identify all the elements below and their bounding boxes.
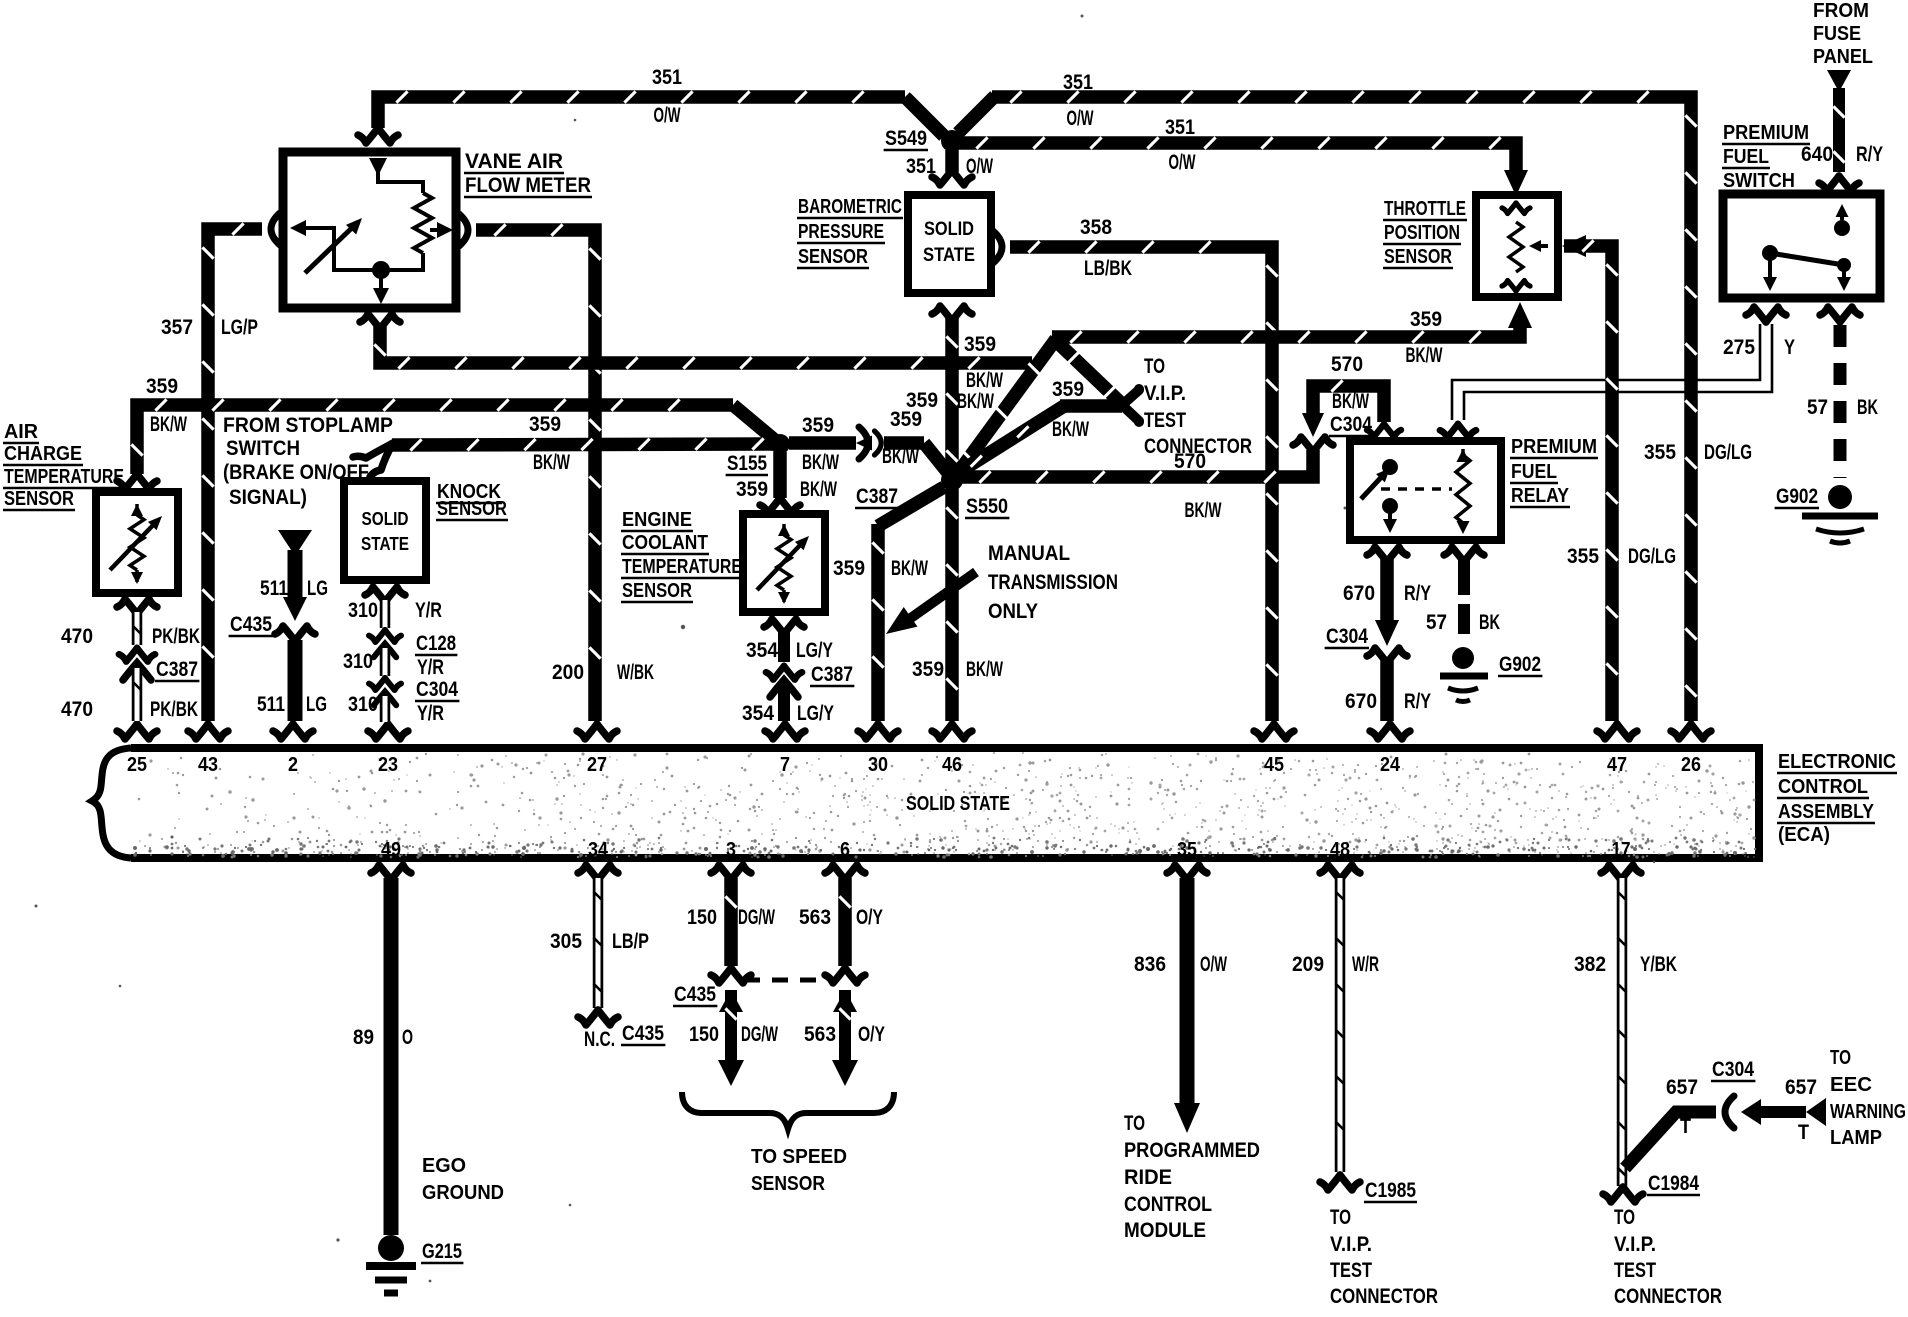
svg-text:30: 30: [868, 754, 888, 776]
svg-text:S550: S550: [966, 495, 1008, 518]
svg-text:25: 25: [127, 754, 147, 776]
ECA pin 24 (top): [1370, 724, 1410, 776]
svg-text:ENGINE: ENGINE: [622, 509, 692, 531]
svg-text:563: 563: [799, 906, 831, 929]
svg-text:359: 359: [146, 375, 178, 398]
svg-text:C387: C387: [856, 485, 898, 508]
label 305: [550, 930, 582, 953]
label Y/R c: [417, 702, 444, 725]
label 640: [1801, 143, 1833, 166]
svg-text:LG: LG: [306, 693, 327, 716]
svg-text:TO SPEED: TO SPEED: [751, 1146, 847, 1168]
svg-text:C435: C435: [230, 613, 272, 636]
ECA pin 6 (bottom): [825, 839, 865, 880]
ECA pin 46 (top): [932, 724, 972, 776]
wire 359 BK/W S550 diagonal to VIP test connector: [956, 341, 1144, 474]
svg-text:CONNECTOR: CONNECTOR: [1330, 1285, 1438, 1308]
wire 150 DG/W to speed sensor: [718, 990, 744, 1086]
label C304 657: [1711, 1058, 1755, 1081]
ECA pin 2 (top): [273, 724, 313, 776]
wire 359 BK/W barometric sensor to S550: [932, 306, 972, 475]
label 351 right top: [1063, 71, 1093, 94]
svg-text:O/W: O/W: [1067, 107, 1094, 130]
svg-text:FUSE: FUSE: [1813, 23, 1861, 45]
engine coolant temperature sensor box: [743, 514, 825, 612]
label BK right: [1857, 396, 1878, 419]
ECA name label: [1777, 751, 1897, 846]
svg-text:SENSOR: SENSOR: [1384, 246, 1452, 268]
svg-text:C435: C435: [674, 983, 716, 1006]
svg-text:34: 34: [588, 839, 609, 861]
label BK/W baro: [966, 369, 1003, 392]
label 354 upper: [746, 639, 778, 662]
label 275: [1723, 336, 1755, 359]
svg-text:7: 7: [780, 754, 790, 776]
premium fuel relay label: [1510, 436, 1598, 507]
wire 359 BK/W S550 to ECA pin 30: [872, 487, 944, 721]
svg-text:C387: C387: [156, 658, 198, 681]
svg-text:TO: TO: [1124, 1112, 1145, 1135]
label 570 s550: [1174, 450, 1206, 473]
label 359 s155 right: [802, 414, 834, 437]
svg-text:COOLANT: COOLANT: [622, 532, 708, 554]
svg-text:C304: C304: [1326, 625, 1368, 648]
label 359 right of C387: [890, 408, 922, 431]
svg-text:382: 382: [1574, 953, 1606, 976]
wire 355 DG/LG throttle position sensor to ECA pin 47: [1562, 235, 1618, 721]
svg-text:C304: C304: [416, 678, 458, 701]
label BK/W ect top: [800, 478, 837, 501]
throttle position sensor label: [1383, 198, 1467, 268]
svg-text:BK/W: BK/W: [957, 390, 994, 413]
label 57 right: [1807, 396, 1828, 419]
svg-text:836: 836: [1134, 953, 1166, 976]
svg-text:PREMIUM: PREMIUM: [1511, 436, 1597, 458]
knock sensor label: [436, 481, 508, 520]
label 359 stoplamp: [529, 413, 561, 436]
label 836: [1134, 953, 1166, 976]
label LG/P: [221, 316, 258, 339]
label 359 pin30: [833, 557, 865, 580]
label C304 570: [1329, 413, 1373, 436]
label 359 tps: [1410, 308, 1442, 331]
svg-text:W/BK: W/BK: [617, 661, 654, 684]
svg-text:BK/W: BK/W: [1332, 390, 1369, 413]
label C387 act: [155, 658, 199, 681]
to VIP test connector text lower right: [1614, 1206, 1722, 1308]
label DG/W upper: [738, 906, 775, 929]
svg-text:C304: C304: [1712, 1058, 1754, 1081]
svg-text:LB/P: LB/P: [612, 930, 649, 953]
label 470 upper: [61, 625, 93, 648]
svg-text:150: 150: [689, 1023, 719, 1046]
label O/Y lower: [858, 1023, 885, 1046]
svg-text:S155: S155: [727, 452, 767, 475]
label O/W 836: [1200, 953, 1227, 976]
svg-text:354: 354: [742, 702, 774, 725]
speed sensor brace: [682, 1092, 894, 1129]
label 357: [161, 316, 193, 339]
label BK/W 570: [1185, 499, 1222, 522]
svg-text:GROUND: GROUND: [422, 1182, 504, 1204]
label Y/R a: [415, 599, 442, 622]
svg-text:49: 49: [381, 839, 401, 861]
engine coolant temperature sensor label: [621, 509, 743, 602]
svg-text:23: 23: [378, 754, 398, 776]
svg-text:TO: TO: [1830, 1047, 1851, 1069]
wire 305 LB/P ECA pin 34 N.C.: [578, 878, 618, 1025]
premium fuel switch box: [1723, 194, 1880, 298]
wire 640 R/Y fuse panel to premium fuel switch: [1819, 70, 1859, 191]
wire 358 LB/BK barometric to ECA pin 45: [993, 231, 1278, 721]
svg-text:Y/R: Y/R: [417, 656, 444, 679]
barometric sensor label: [797, 196, 903, 268]
wire relay left pin to C304 to ECA pin 24: [1367, 547, 1407, 721]
svg-text:354: 354: [746, 639, 778, 662]
knock sensor SOLID STATE text: [361, 509, 409, 554]
svg-text:LAMP: LAMP: [1830, 1127, 1882, 1149]
label C128: [415, 632, 457, 655]
label C1984: [1647, 1172, 1700, 1195]
svg-text:BK/W: BK/W: [533, 451, 570, 474]
from fuse panel text: [1813, 0, 1873, 68]
label C435 speed: [673, 983, 717, 1006]
wire 359 BK/W air charge temp sensor to S155: [117, 399, 776, 489]
label 89: [353, 1026, 374, 1049]
svg-text:G902: G902: [1776, 485, 1818, 508]
wire 89 O ECA pin 49 to EGO ground: [384, 878, 399, 1235]
label C1985: [1364, 1179, 1417, 1202]
svg-text:THROTTLE: THROTTLE: [1384, 198, 1466, 220]
label O/W right top: [1067, 107, 1094, 130]
svg-text:PREMIUM: PREMIUM: [1723, 122, 1809, 144]
svg-text:BK/W: BK/W: [1052, 418, 1089, 441]
svg-text:209: 209: [1292, 953, 1324, 976]
svg-text:BK/W: BK/W: [802, 451, 839, 474]
svg-text:BK/W: BK/W: [891, 557, 928, 580]
label BK relay: [1479, 611, 1500, 634]
ECA pin 23 (top): [368, 724, 408, 776]
ECA pin 30 (top): [858, 724, 898, 776]
ECA pin 45 (top): [1254, 724, 1294, 776]
wire 200 W/BK vane right pin to ECA pin 27: [459, 214, 601, 721]
wire 57 BK dashed to ground G902 right: [1820, 307, 1860, 478]
svg-text:SIGNAL): SIGNAL): [229, 486, 307, 509]
label O/Y upper: [856, 906, 883, 929]
vane air flow meter internal potentiometer: [290, 128, 453, 304]
label C387 ect: [810, 663, 854, 686]
svg-text:359: 359: [906, 389, 938, 412]
svg-text:POSITION: POSITION: [1384, 222, 1460, 244]
label R/Y 640: [1856, 143, 1883, 166]
label LG upper: [307, 577, 328, 600]
svg-text:SENSOR: SENSOR: [437, 498, 507, 520]
wire 359 vane bottom to S550 diagonal tee: [360, 314, 1032, 369]
label 563 lower: [804, 1023, 836, 1046]
svg-text:FROM STOPLAMP: FROM STOPLAMP: [223, 414, 393, 437]
svg-text:SOLID STATE: SOLID STATE: [906, 793, 1010, 815]
svg-text:STATE: STATE: [923, 245, 975, 266]
EGO GROUND text: [422, 1155, 504, 1204]
svg-text:SENSOR: SENSOR: [4, 488, 74, 510]
svg-text:V.I.P.: V.I.P.: [1614, 1233, 1656, 1256]
svg-text:O/W: O/W: [654, 104, 681, 127]
label C435 upper: [229, 613, 273, 636]
svg-text:PRESSURE: PRESSURE: [798, 221, 884, 243]
svg-text:TO: TO: [1614, 1206, 1635, 1229]
ECA pin 43 (top): [188, 724, 228, 776]
label 150 upper: [687, 906, 717, 929]
C435 dashed link: [744, 978, 830, 983]
vane air flow meter box: [283, 152, 456, 308]
label 359 diag: [906, 389, 938, 412]
svg-text:511: 511: [260, 577, 288, 600]
svg-text:57: 57: [1807, 396, 1828, 419]
svg-text:355: 355: [1644, 441, 1676, 464]
svg-text:PK/BK: PK/BK: [152, 625, 200, 648]
to EEC warning lamp text: [1830, 1047, 1906, 1149]
label W/R: [1352, 953, 1379, 976]
svg-text:WARNING: WARNING: [1830, 1101, 1906, 1123]
label C304 knock: [415, 678, 459, 701]
svg-text:470: 470: [61, 698, 93, 721]
svg-text:RELAY: RELAY: [1511, 485, 1570, 507]
svg-text:TEMPERATURE: TEMPERATURE: [4, 466, 124, 488]
svg-text:17: 17: [1612, 839, 1631, 861]
label C435 nc: [621, 1022, 665, 1045]
wire 150 DG/W ECA pin 3 to C435: [711, 878, 751, 983]
svg-text:275: 275: [1723, 336, 1755, 359]
svg-text:FUEL: FUEL: [1511, 461, 1557, 483]
wire 357 LG/P vane left pin to ECA pin 43: [202, 213, 280, 721]
svg-text:CONNECTOR: CONNECTOR: [1614, 1285, 1722, 1308]
ECA pin 26 (top): [1671, 724, 1711, 776]
label 57 relay: [1426, 611, 1447, 634]
svg-text:3: 3: [726, 839, 736, 861]
label 670 lower: [1345, 690, 1377, 713]
label 355 pin26: [1644, 441, 1676, 464]
svg-text:26: 26: [1681, 754, 1701, 776]
svg-text:LB/BK: LB/BK: [1084, 257, 1132, 280]
svg-text:43: 43: [198, 754, 218, 776]
wire 382 Y/BK ECA pin 17 to C1984: [1603, 878, 1643, 1202]
label R/Y lower: [1404, 690, 1431, 713]
label 511 lower: [257, 693, 285, 716]
ECA pin 34 (bottom): [578, 839, 618, 880]
svg-text:48: 48: [1330, 839, 1350, 861]
svg-text:T: T: [1798, 1121, 1809, 1144]
knock sensor box: [344, 481, 426, 580]
svg-text:359: 359: [833, 557, 865, 580]
svg-text:BK: BK: [1857, 396, 1878, 419]
svg-text:DG/LG: DG/LG: [1704, 441, 1752, 464]
svg-text:SOLID: SOLID: [924, 219, 974, 240]
barometric pressure sensor box: [908, 195, 991, 293]
junction S155: [726, 434, 790, 475]
label DG/LG pin26: [1704, 441, 1752, 464]
svg-text:N.C.: N.C.: [584, 1028, 615, 1051]
svg-text:SENSOR: SENSOR: [751, 1173, 825, 1195]
svg-text:BK/W: BK/W: [1406, 344, 1443, 367]
from stoplamp switch text: [223, 414, 393, 509]
svg-text:BK/W: BK/W: [800, 478, 837, 501]
ECA pin 3 (bottom): [711, 839, 751, 880]
air charge temperature sensor box: [96, 492, 178, 593]
label 355 pin47: [1567, 545, 1599, 568]
svg-text:670: 670: [1345, 690, 1377, 713]
svg-text:359: 359: [1410, 308, 1442, 331]
svg-text:LG/P: LG/P: [221, 316, 258, 339]
label R/Y upper: [1404, 582, 1431, 605]
wire 563 O/Y ECA pin 6 to C435: [825, 878, 865, 983]
wire 351 O/W stub S549 to barometric pressure sensor: [932, 150, 972, 185]
svg-text:355: 355: [1567, 545, 1599, 568]
svg-text:BK: BK: [1479, 611, 1500, 634]
manual transmission only arrow: [879, 572, 976, 644]
svg-text:MANUAL: MANUAL: [988, 542, 1070, 565]
label 310 c: [348, 693, 378, 716]
to speed sensor text: [751, 1146, 847, 1195]
svg-text:LG/Y: LG/Y: [797, 702, 834, 725]
throttle position sensor box: [1476, 195, 1558, 297]
label O/W stub: [966, 155, 993, 178]
svg-text:310: 310: [343, 650, 373, 673]
svg-text:359: 359: [802, 414, 834, 437]
wire 563 O/Y to speed sensor: [832, 990, 858, 1086]
ground G902 mid: [1440, 647, 1542, 702]
svg-text:BK/W: BK/W: [1185, 499, 1222, 522]
label T left: [1680, 1115, 1691, 1138]
svg-text:DG/W: DG/W: [741, 1023, 778, 1046]
throttle position sensor internals: [1502, 203, 1548, 291]
ECA pin 48 (bottom): [1320, 839, 1360, 880]
svg-text:O: O: [402, 1026, 413, 1049]
label 209: [1292, 953, 1324, 976]
label 351 left: [652, 66, 682, 89]
svg-text:O/Y: O/Y: [858, 1023, 885, 1046]
ground G902 right: [1775, 485, 1878, 543]
svg-text:G215: G215: [422, 1240, 462, 1263]
label O/W second: [1169, 151, 1196, 174]
svg-text:W/R: W/R: [1352, 953, 1379, 976]
svg-text:R/Y: R/Y: [1856, 143, 1883, 166]
svg-text:359: 359: [736, 478, 768, 501]
svg-text:MODULE: MODULE: [1124, 1219, 1206, 1242]
label O: [402, 1026, 413, 1049]
label 359 baro: [964, 333, 996, 356]
svg-text:563: 563: [804, 1023, 836, 1046]
label LG/Y lower: [797, 702, 834, 725]
label 511 upper: [260, 577, 288, 600]
manual transmission only text: [988, 542, 1118, 623]
wire 310 Y/R knock sensor to ECA pin 23 via C128 and C304: [365, 587, 405, 722]
svg-text:358: 358: [1080, 216, 1112, 239]
label BK/W pin46: [966, 658, 1003, 681]
label 310 a: [348, 599, 378, 622]
svg-text:310: 310: [348, 599, 378, 622]
svg-text:TO: TO: [1330, 1206, 1351, 1229]
svg-text:670: 670: [1343, 582, 1375, 605]
svg-text:511: 511: [257, 693, 285, 716]
label 351 second: [1165, 116, 1195, 139]
premium fuel switch left pin Y: [1746, 307, 1786, 322]
svg-text:24: 24: [1380, 754, 1401, 776]
svg-text:TEMPERATURE: TEMPERATURE: [622, 556, 742, 578]
label 359 vip: [1052, 378, 1084, 401]
svg-text:DG/LG: DG/LG: [1628, 545, 1676, 568]
svg-text:C128: C128: [416, 632, 456, 655]
svg-text:351: 351: [1063, 71, 1093, 94]
wire 657 T to EEC warning lamp via C304: [1625, 1096, 1826, 1168]
label Y/BK: [1640, 953, 1677, 976]
svg-text:150: 150: [687, 906, 717, 929]
svg-text:SOLID: SOLID: [362, 509, 409, 529]
svg-text:BK/W: BK/W: [150, 413, 187, 436]
label N.C.: [584, 1028, 615, 1051]
wire from stoplamp switch to S155 via knock sensor tap: [353, 438, 776, 477]
svg-text:C387: C387: [811, 663, 853, 686]
svg-text:Y: Y: [1784, 336, 1795, 359]
svg-text:TRANSMISSION: TRANSMISSION: [988, 571, 1118, 594]
svg-text:BK/W: BK/W: [966, 658, 1003, 681]
svg-text:Y/BK: Y/BK: [1640, 953, 1677, 976]
svg-text:C304: C304: [1330, 413, 1372, 436]
ECA pin 47 (top): [1597, 724, 1637, 776]
label BK/W stoplamp: [533, 451, 570, 474]
svg-text:Y/R: Y/R: [417, 702, 444, 725]
svg-text:27: 27: [587, 754, 607, 776]
ECT sensor internal variable resistor: [757, 524, 813, 604]
svg-text:C1985: C1985: [1365, 1179, 1416, 1202]
svg-text:VANE AIR: VANE AIR: [465, 150, 563, 173]
label 657 left: [1666, 1076, 1698, 1099]
ECA label SOLID STATE: [906, 793, 1010, 815]
label 670 upper: [1343, 582, 1375, 605]
ECA pin 17 (bottom): [1601, 839, 1641, 880]
svg-text:45: 45: [1264, 754, 1284, 776]
label 359 pin46: [912, 658, 944, 681]
wire 359 BK/W S155 to S550 through C387: [789, 427, 949, 474]
label 359 act: [146, 375, 178, 398]
label 351 stub: [906, 155, 936, 178]
label BK/W act: [150, 413, 187, 436]
svg-text:O/W: O/W: [1169, 151, 1196, 174]
label 657 right: [1785, 1076, 1817, 1099]
svg-text:46: 46: [942, 754, 962, 776]
wire 351 O/W from vane air flow meter to S549: [378, 91, 944, 136]
svg-text:CONTROL: CONTROL: [1124, 1193, 1212, 1216]
svg-text:LG/Y: LG/Y: [796, 639, 833, 662]
svg-text:C435: C435: [622, 1022, 664, 1045]
wire 275 Y premium fuel switch to premium fuel relay (thin): [1440, 324, 1772, 438]
ACT sensor internal variable resistor: [110, 504, 166, 584]
svg-text:SENSOR: SENSOR: [798, 246, 868, 268]
label 200: [552, 661, 584, 684]
svg-text:O/Y: O/Y: [856, 906, 883, 929]
svg-text:PANEL: PANEL: [1813, 46, 1873, 68]
premium fuel switch internals: [1762, 204, 1851, 291]
wire 351 O/W second line S549 to throttle position sensor: [958, 137, 1528, 196]
svg-text:89: 89: [353, 1026, 374, 1049]
to VIP test connector text lower left: [1330, 1206, 1438, 1308]
ECA pin 35 (bottom): [1167, 839, 1207, 880]
svg-text:AIR: AIR: [4, 421, 39, 443]
svg-text:351: 351: [906, 155, 936, 178]
svg-text:657: 657: [1785, 1076, 1817, 1099]
wire 351 O/W from S549 to right corner down to ECA pin 26: [958, 91, 1697, 721]
svg-text:TEST: TEST: [1144, 409, 1186, 432]
svg-text:TEST: TEST: [1614, 1259, 1656, 1282]
